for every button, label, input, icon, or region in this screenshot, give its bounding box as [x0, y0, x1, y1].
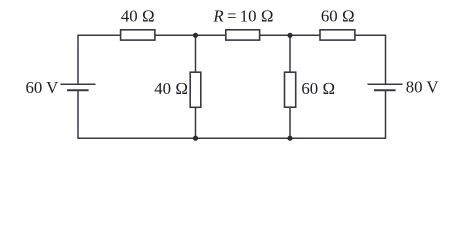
svg-text:60 V: 60 V: [26, 78, 59, 97]
resistor R 10 ohm (top middle, horizontal): [226, 30, 260, 40]
svg-text:40 Ω: 40 Ω: [154, 79, 188, 98]
battery V1 60V short plate: [67, 89, 89, 91]
svg-text:60 Ω: 60 Ω: [301, 79, 335, 98]
wire stub resistor R2 bottom to bottom wire: [195, 107, 197, 138]
battery V2 80V long plate: [368, 83, 403, 85]
wire right lower (battery bottom plate to bottom corner): [385, 90, 387, 139]
wire stub node B to resistor R4 top: [289, 35, 291, 72]
node C junction dot (bottom left): [193, 136, 198, 141]
node A junction dot (top left): [193, 33, 198, 38]
resistor R4 60 ohm (right vertical): [285, 72, 296, 107]
wire left upper (top corner to battery top plate): [77, 35, 79, 85]
wire stub resistor R4 bottom to bottom wire: [289, 107, 291, 138]
svg-text:R = 10 Ω: R = 10 Ω: [212, 7, 273, 26]
battery V1 60V long plate: [61, 83, 96, 85]
svg-text:60 Ω: 60 Ω: [321, 7, 355, 26]
wire top horizontal: [78, 34, 386, 36]
wire stub node A to resistor R2 top: [195, 35, 197, 72]
battery V2 80V short plate: [374, 89, 396, 91]
node D junction dot (bottom right): [287, 136, 292, 141]
svg-text:80 V: 80 V: [406, 78, 439, 97]
node B junction dot (top right): [287, 33, 292, 38]
svg-text:40 Ω: 40 Ω: [121, 7, 155, 26]
wire bottom horizontal: [78, 137, 386, 139]
wire right upper (top corner to battery top plate): [385, 35, 387, 85]
resistor R3 60 ohm (top right, horizontal): [320, 30, 355, 40]
resistor R2 40 ohm (left vertical): [190, 72, 201, 107]
resistor R1 40 ohm (top left, horizontal): [121, 30, 155, 40]
wire left lower (battery bottom plate to bottom corner): [77, 90, 79, 139]
